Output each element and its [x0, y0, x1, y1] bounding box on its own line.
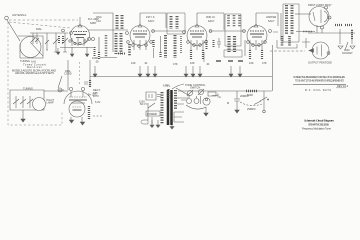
resistor R17: [288, 36, 291, 46]
svg-text:47K: 47K: [173, 62, 178, 66]
label power trans: [146, 111, 160, 116]
rectifier V7 cathode bar: [71, 102, 85, 104]
resistor R15: [213, 40, 215, 48]
volume control pot: [167, 89, 169, 98]
coil L7 IF transformer: [164, 35, 167, 58]
node A: [227, 102, 229, 104]
pilot lamp P1: [203, 98, 210, 105]
ground arrow G8: [229, 66, 233, 77]
resistor R1 cathode: [58, 36, 60, 44]
tube V6 cathode bar: [316, 47, 318, 55]
trimmer capacitor C2b: [45, 33, 49, 50]
resistor R10 plate load: [335, 24, 352, 26]
node circle V4 left: [243, 30, 246, 33]
resistor R15b: [206, 40, 208, 50]
ballast tube V8 envelope: [69, 101, 85, 117]
wire heater curve: [172, 84, 184, 89]
ground V1 b: [70, 47, 74, 57]
node circle V3 right: [209, 30, 212, 33]
resistor R3b bottom bar: [98, 52, 100, 60]
tube V6 grid arrow: [309, 49, 314, 53]
node circle V2 pin a: [127, 41, 130, 44]
resistor R6: [190, 50, 192, 60]
discriminator transformer secondary: [233, 36, 236, 52]
wire lamp line: [44, 90, 68, 92]
node circle V4 pin c: [258, 44, 261, 47]
resistor R16: [281, 36, 284, 46]
node circle V3 pin c: [199, 44, 202, 47]
wire tone bus 1: [178, 90, 272, 92]
ground arrow G9: [238, 66, 242, 77]
svg-text:.05: .05: [95, 60, 99, 64]
svg-text:47K: 47K: [262, 61, 267, 65]
svg-text:LAMP: LAMP: [47, 100, 54, 104]
dial lamp: [33, 98, 46, 111]
svg-text:DIAL: DIAL: [36, 27, 42, 31]
svg-text:.01: .01: [144, 61, 148, 65]
node circle V4 pin b: [252, 44, 255, 47]
node circle V4 right: [269, 30, 272, 33]
node circle V1 pin b: [74, 42, 76, 44]
electrolytic capacitor C10: [260, 91, 267, 110]
wire V3 pins: [191, 40, 203, 50]
resistor network bracket left of V6: [277, 40, 297, 48]
tube V5 pin bottom: [321, 26, 324, 29]
wire ground bus: [90, 76, 272, 78]
tube V2 plate: [133, 33, 147, 35]
node circle V3 pin a: [187, 41, 190, 44]
node circle V2 pin d: [145, 44, 148, 47]
ground V1 c: [85, 47, 89, 57]
wire dashed B+: [93, 115, 103, 117]
svg-text:ANTENNA: ANTENNA: [12, 13, 26, 17]
svg-text:6AC7: 6AC7: [268, 19, 275, 23]
tube V1 plate: [74, 34, 86, 36]
wire vertical feed: [272, 45, 274, 91]
node circle V1 grid cap: [62, 29, 65, 32]
discriminator transformer primary: [227, 36, 230, 52]
tube V5 plate: [320, 10, 322, 24]
svg-text:2ND I.F.: 2ND I.F.: [206, 15, 216, 19]
wire V5 cathode pin stub: [321, 29, 323, 33]
tube V8 plate: [73, 109, 82, 111]
svg-text:CONNECT WHITE MARKED V OR YEL/: CONNECT WHITE MARKED V OR YEL/G TO CHASS…: [293, 75, 345, 79]
ground arrow G3: [146, 66, 150, 77]
node B: [267, 99, 269, 101]
tuning capacitor frame: [18, 36, 43, 58]
coil L12: [238, 15, 241, 27]
node circle V3 pin b: [193, 44, 196, 47]
switch S1 terminal box: [146, 92, 156, 100]
svg-text:100K: 100K: [92, 56, 98, 60]
tube V3 cathode: [192, 36, 202, 38]
band switch box: [10, 90, 44, 110]
wire heater bar: [200, 96, 202, 104]
wire V6 grid junction: [302, 38, 310, 48]
tube V5 pin top: [325, 6, 328, 9]
ground arrow G2: [138, 66, 142, 77]
wire IF1 bottom: [100, 42, 117, 58]
coil L6: [128, 44, 131, 56]
capacitor C14 pair: [88, 38, 91, 41]
ground arrow G6: [191, 66, 195, 77]
resistor R13: [246, 90, 257, 92]
wire discriminator out: [204, 40, 245, 62]
heater wiring pins: [187, 99, 192, 104]
power transformer core: [168, 90, 172, 125]
svg-text:Frequency Modulation Tuner: Frequency Modulation Tuner: [302, 127, 331, 131]
capacitor C14b: [92, 38, 95, 41]
tuning capacitor C1 gang rotor: [20, 37, 41, 58]
rectifier V7 grid bars: [69, 96, 87, 98]
wire dial cord link: [58, 76, 62, 88]
shield box oscillator: [93, 13, 113, 42]
wire ratio det left: [273, 13, 281, 40]
wire main signal bus: [30, 32, 68, 34]
padder capacitor C6: [20, 96, 26, 108]
wire R4 riser: [154, 36, 161, 58]
switch S1: [148, 103, 155, 117]
svg-text:6.3V: 6.3V: [95, 100, 101, 104]
wire V2 cap to box: [139, 13, 141, 24]
svg-text:10K: 10K: [131, 61, 136, 65]
shield box T2: [167, 13, 185, 34]
tube V3 grid: [190, 30, 204, 32]
tube V1 RF amp envelope: [71, 26, 90, 45]
coil L14: [291, 5, 294, 34]
svg-text:5000: 5000: [247, 93, 253, 97]
wire dashed grid feed V6: [270, 50, 305, 52]
wire audio coupling: [308, 29, 355, 44]
ground C10 dot: [263, 110, 266, 113]
tube V5 pin right: [328, 16, 331, 19]
wire V1 pins: [72, 38, 84, 46]
svg-text:REV 10-4: REV 10-4: [337, 84, 349, 88]
trimmer capacitor C3a: [62, 33, 68, 52]
node circle V2 pin e: [150, 41, 153, 44]
ground arrow G1: [93, 66, 97, 77]
svg-text:OUTPUT PENTODE: OUTPUT PENTODE: [308, 61, 332, 65]
wire V1 under: [60, 47, 93, 49]
node circle V2 right: [152, 30, 155, 33]
svg-text:6AC7: 6AC7: [148, 19, 155, 23]
tube V4 top cap: [254, 24, 258, 27]
node circle V1 right: [70, 32, 73, 35]
node circle V1 pin d: [84, 40, 86, 42]
potentiometer tone: [188, 91, 193, 96]
resistor R20 below corner: [89, 80, 91, 87]
wire vol wiper: [176, 88, 190, 96]
ground arrow G7: [198, 66, 202, 77]
coil L3 secondary: [98, 37, 100, 52]
svg-text:STEWART MODEL 9000-B: STEWART MODEL 9000-B: [308, 122, 329, 126]
wire rectifier left: [58, 89, 64, 91]
resistor R5 tall: [180, 36, 182, 54]
tube V8 grid: [73, 106, 82, 108]
wire into V5: [295, 13, 311, 15]
tube V5 first audio envelope: [309, 7, 329, 27]
AC line cord: [141, 117, 152, 124]
node circle V4 pin a: [247, 41, 250, 44]
wire V5 pin bottom stub: [316, 25, 318, 33]
wire lamp riser: [67, 60, 69, 90]
ground transformer 3: [170, 125, 174, 129]
capacitor C13 marks: [84, 82, 88, 84]
label box 1ST I.F.: [140, 13, 166, 28]
resistor R1a: [62, 36, 64, 44]
wire V3 to V4: [209, 30, 245, 32]
coil L9 top: [170, 16, 173, 29]
resistor R7: [202, 50, 204, 60]
wire V4 pins: [250, 40, 262, 50]
ground C9: [235, 110, 239, 113]
capacitor C11: [217, 38, 221, 48]
tube V3 2nd IF envelope: [187, 26, 207, 46]
ground audio: [338, 46, 355, 49]
shield box discriminator: [225, 14, 241, 46]
svg-text:.01: .01: [206, 62, 210, 66]
tube V1 grid: [73, 31, 87, 33]
wire dashed filament: [79, 62, 81, 86]
svg-text:R.F. COIL DATA: R.F. COIL DATA: [305, 88, 331, 92]
coil L10: [227, 15, 230, 27]
discriminator box: [224, 50, 242, 57]
node circle V2 pin b: [132, 44, 135, 47]
rule under note: [293, 83, 346, 85]
tube V6 output envelope: [312, 42, 329, 59]
capacitor C8: [58, 88, 62, 92]
wire heater left: [181, 96, 197, 100]
svg-text:A61CR6, A62CR5 and A72T3 SETS: A61CR6, A62CR5 and A72T3 SETS: [15, 71, 54, 75]
antenna terminal A1: [5, 16, 9, 20]
tube V3 top cap: [195, 24, 199, 27]
padder capacitor C5: [13, 96, 19, 108]
svg-text:POWER: POWER: [147, 112, 157, 116]
svg-text:TUNING: TUNING: [23, 87, 33, 91]
svg-text:7A4: 7A4: [96, 19, 101, 23]
ground transformer 1: [150, 120, 154, 128]
resistor R11 filter: [88, 106, 90, 120]
rectifier V7 plate bar: [69, 99, 87, 101]
wire heater loop: [186, 105, 206, 109]
ground rect 1: [69, 117, 73, 123]
tube V6 pin right: [327, 52, 330, 55]
ground arrow G5: [184, 66, 188, 77]
pilot lamp bead: [205, 98, 207, 100]
svg-text:6AC7: 6AC7: [208, 19, 215, 23]
node circle V1 pin a: [69, 40, 71, 42]
coil L8: [174, 35, 177, 58]
resistor R8: [249, 50, 251, 60]
coil L13: [285, 5, 288, 34]
trimmer capacitor C3: [53, 33, 59, 52]
ground tuning: [21, 110, 25, 122]
coil L9b top: [176, 16, 179, 29]
ground arrow G4: [153, 66, 157, 77]
svg-text:LIMITER: LIMITER: [266, 15, 276, 19]
svg-text:OSC.: OSC.: [96, 15, 103, 19]
dashed enclosure left: [8, 22, 62, 125]
resistor R2a: [94, 47, 96, 56]
coil L2a lower: [116, 33, 121, 54]
tube V2 grid: [133, 30, 147, 32]
resistor R18 right edge: [351, 30, 353, 40]
svg-text:SWITCH: SWITCH: [190, 86, 200, 90]
tube V2 1st IF envelope: [130, 26, 150, 46]
node circle V3 pin d: [205, 41, 208, 44]
svg-text:A: A: [219, 95, 221, 99]
wire antenna to tuning gang: [7, 20, 20, 41]
wire bus corner riser: [89, 60, 91, 86]
wire plate line V1: [88, 29, 128, 31]
rectifier V7 plate risers: [71, 91, 83, 97]
resistor R12: [208, 92, 216, 96]
svg-text:10K: 10K: [249, 61, 254, 65]
svg-text:10K: 10K: [190, 61, 195, 65]
tube V2 top cap: [138, 24, 142, 27]
wire dashed antenna lead lower: [9, 22, 70, 28]
wire V3 cap riser: [197, 13, 224, 30]
wire dashed antenna lead top: [9, 19, 78, 21]
wire V2 to V3: [152, 30, 186, 32]
ground for trimmers: [46, 50, 67, 52]
trimmer capacitor C2a: [35, 33, 39, 44]
ground transformer 2: [156, 120, 160, 128]
wire secondary taps: [177, 98, 188, 104]
wire V2 pins: [134, 40, 146, 50]
coil L2: [121, 15, 124, 29]
node circle V1 pin c: [79, 42, 81, 44]
tuning capacitor vane: [30, 42, 43, 56]
tube V1 top cap: [78, 17, 82, 27]
tube V1 cathode: [76, 37, 84, 39]
coil L1: [116, 15, 119, 29]
resistor R4: [159, 52, 161, 58]
svg-text:25MFD: 25MFD: [247, 107, 256, 111]
capacitor C12 slash: [345, 42, 348, 50]
svg-text:VOL.: VOL.: [165, 84, 171, 88]
wire dashed cap link: [240, 102, 262, 106]
tube V6 plate: [321, 45, 323, 57]
svg-text:TO SHUNT 137 OHM SPEAKER ON RE: TO SHUNT 137 OHM SPEAKER ON REQUIREMENTS: [295, 79, 344, 83]
svg-text:60 CY.: 60 CY.: [140, 102, 148, 106]
shield box ratio detector: [283, 4, 299, 42]
tube V5 grid: [313, 12, 315, 21]
tube V4 cathode: [252, 36, 262, 38]
rectifier plate caps: [69, 87, 72, 90]
power transformer primary: [161, 92, 164, 124]
node circle V2 pin c: [138, 45, 141, 48]
svg-text:1ST I.F.: 1ST I.F.: [146, 15, 155, 19]
tube V3 plate: [190, 33, 204, 35]
wire ratio det out: [296, 31, 315, 33]
trimmer capacitor C2: [31, 33, 35, 44]
resistor R3: [152, 40, 154, 48]
ground rect 2: [80, 117, 84, 125]
coil L11: [233, 15, 236, 27]
ground heater: [204, 107, 208, 116]
power transformer secondary lower: [174, 112, 184, 122]
ground V1 a: [56, 48, 60, 55]
tube V4 plate: [250, 33, 264, 35]
potentiometer volume: [199, 90, 204, 95]
wire C10 branch: [254, 101, 261, 105]
svg-text:Schematic Circuit Diagram: Schematic Circuit Diagram: [304, 119, 334, 123]
resistor R15a label bar: [216, 60, 243, 62]
padder capacitor C7: [27, 96, 33, 108]
resistor R9: [261, 50, 263, 60]
svg-text:117V: 117V: [93, 94, 99, 98]
wire V4 cap riser: [256, 13, 278, 26]
power transformer secondary: [174, 90, 177, 110]
wire tone bus 2: [212, 94, 218, 98]
resistor R21 squiggle: [303, 31, 312, 33]
svg-text:Receiver: Receiver: [27, 65, 42, 69]
rectifier V7 envelope: [64, 91, 92, 104]
tube V2 cathode: [135, 36, 145, 38]
node circle V4 pin d: [264, 41, 267, 44]
svg-text:SOCKET: SOCKET: [342, 51, 353, 55]
coil L4: [105, 35, 108, 57]
tube V5 cathode arc: [324, 11, 328, 22]
resistor R19 horizontal: [118, 53, 126, 55]
tube V4 grid: [250, 30, 264, 32]
node circle V3 left: [183, 31, 186, 34]
capacitor C15 marks: [157, 95, 161, 97]
tube V4 limiter envelope: [247, 26, 267, 46]
node circle V2 left: [126, 32, 129, 35]
electrolytic capacitor C9: [234, 91, 240, 110]
